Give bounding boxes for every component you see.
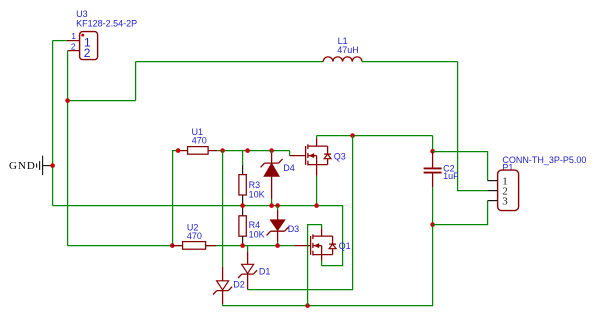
P1 pin 1 stub [488, 180, 498, 182]
node mid rail R3 [240, 203, 245, 208]
capacitor C2 [424, 152, 460, 188]
wire Q3 drain rail [317, 135, 433, 137]
svg-text:3: 3 [502, 196, 508, 208]
U3 pin 2 [68, 41, 80, 51]
node mid rail D4 [269, 203, 274, 208]
svg-text:Q1: Q1 [339, 241, 351, 251]
wire top rail right of L1 [362, 61, 458, 63]
node drain rail tap [350, 133, 355, 138]
resistor U1 [178, 127, 217, 154]
ground [9, 156, 53, 175]
wire U3 pin1 horizontal [53, 40, 67, 42]
wire P1 pin3 feed [433, 201, 488, 225]
wire top rail left of L1 [136, 61, 324, 63]
resistor U2 [172, 223, 216, 250]
svg-text:D1: D1 [259, 266, 271, 276]
svg-text:D3: D3 [288, 224, 300, 234]
wire P1 pin1 feed [433, 152, 488, 181]
wire bottom rail [223, 225, 433, 306]
node U1 row mid [245, 148, 250, 153]
node mid rail Q3 source [314, 203, 319, 208]
wire Q1 drain loop to bottom rail [308, 225, 322, 306]
svg-text:Q3: Q3 [334, 151, 346, 161]
node U1 left [176, 148, 181, 153]
wire Q3 gate link [289, 151, 291, 156]
zener diode D1 [238, 246, 270, 290]
node U2 row R4 [240, 243, 245, 248]
wire U1 row right [217, 150, 289, 152]
wire Q1 source down [321, 261, 323, 266]
wire mid rail [53, 206, 343, 266]
wire U2 row [68, 245, 295, 247]
svg-text:10K: 10K [249, 230, 265, 240]
wire right drop to P1 pin2 [458, 62, 488, 191]
svg-text:10K: 10K [249, 189, 265, 199]
svg-text:2: 2 [71, 41, 76, 51]
svg-text:2: 2 [84, 46, 91, 60]
wire riser to top rail [135, 62, 137, 101]
node U1 row D4 tap [269, 148, 274, 153]
node U2 row D3 [275, 243, 280, 248]
connector P1 [498, 155, 587, 210]
svg-text:D4: D4 [283, 163, 295, 173]
wire U3 pin1 vertical down to GND rail [52, 41, 54, 206]
svg-text:GND: GND [9, 160, 36, 172]
svg-text:KF128-2.54-2P: KF128-2.54-2P [76, 18, 137, 28]
wire D1 cathode run [248, 136, 353, 290]
wire C2 bottom [432, 187, 434, 224]
zener diode D4 [261, 151, 295, 206]
node C2 bottom [430, 222, 435, 227]
zener diode D2 [213, 267, 245, 304]
wire Q3 source down [316, 176, 318, 206]
P1 pin 2 stub [488, 190, 498, 192]
zener diode D3 [267, 206, 300, 246]
inductor L1 [323, 36, 362, 62]
mosfet Q3 [290, 138, 346, 176]
connector U3 [76, 9, 137, 60]
mosfet Q1 [311, 228, 351, 260]
wire D2 vertical [222, 151, 224, 267]
node pin2 branch junction [65, 98, 70, 103]
wire pin2 branch horizontal [68, 100, 136, 102]
svg-text:1uF: 1uF [443, 171, 459, 181]
wire C2 riser [432, 136, 434, 152]
svg-text:470: 470 [192, 135, 207, 145]
resistor R4 [239, 206, 265, 246]
svg-text:CONN-TH_3P-P5.00: CONN-TH_3P-P5.00 [502, 155, 586, 165]
node bottom rail Q1 drain [305, 303, 310, 308]
node U1 row D2 tap [220, 148, 225, 153]
resistor R3 [239, 165, 265, 206]
node U2 left [170, 243, 175, 248]
U3 pin 1 [67, 31, 80, 41]
wire U3 pin2 vertical [67, 51, 69, 246]
wire R3 top stub [242, 151, 244, 165]
P1 pin 3 stub [488, 200, 498, 202]
svg-text:470: 470 [187, 231, 202, 241]
wire U1 left corner down [173, 151, 179, 246]
svg-text:47uH: 47uH [337, 45, 359, 55]
node C2 top [430, 149, 435, 154]
svg-text:1: 1 [71, 31, 76, 41]
wire Q1 gate link [295, 245, 311, 247]
node GND junction [50, 163, 55, 168]
wire Q3 drain up [316, 136, 318, 139]
node mid rail D3 [275, 203, 280, 208]
svg-text:D2: D2 [233, 279, 245, 289]
